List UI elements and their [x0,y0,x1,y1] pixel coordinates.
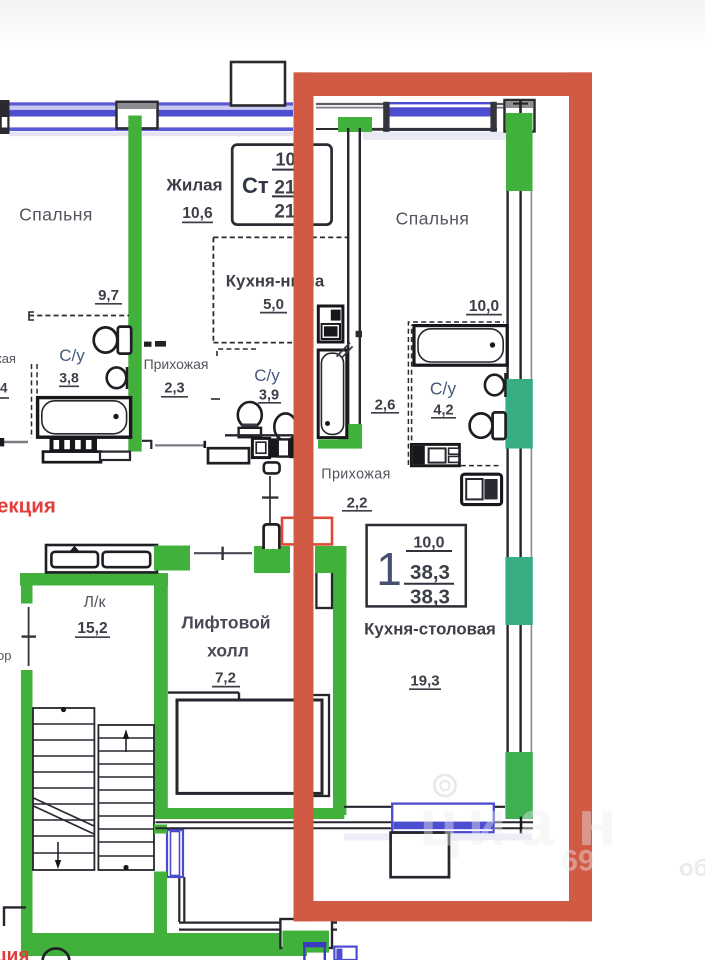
svg-text:а: а [518,787,554,859]
svg-text:21: 21 [274,202,296,223]
svg-text:10,0: 10,0 [413,535,444,552]
svg-text:ц: ц [419,787,458,859]
svg-text:2,6: 2,6 [375,397,396,414]
svg-text:7,2: 7,2 [215,670,236,687]
svg-text:3,8: 3,8 [59,370,79,386]
svg-text:и: и [467,787,506,859]
svg-text:Спальня: Спальня [19,205,93,225]
svg-text:ор: ор [0,648,11,663]
svg-text:10,6: 10,6 [182,205,213,222]
svg-text:2,3: 2,3 [164,381,184,397]
svg-text:Спальня: Спальня [396,209,470,229]
svg-text:10: 10 [275,150,295,170]
svg-text:38,3: 38,3 [410,586,450,609]
svg-text:Ст: Ст [242,173,269,198]
svg-text:1: 1 [376,543,402,595]
svg-text:19,3: 19,3 [410,673,439,690]
svg-text:3,9: 3,9 [259,388,279,404]
svg-text:5,0: 5,0 [263,296,284,313]
svg-text:10,0: 10,0 [469,298,499,315]
svg-text:Прихожая: Прихожая [144,356,209,372]
svg-text:2,2: 2,2 [347,495,368,512]
svg-text:4: 4 [0,381,8,396]
svg-text:9,7: 9,7 [98,287,119,304]
svg-text:об: об [679,855,705,882]
svg-text:4,2: 4,2 [433,403,453,419]
svg-text:С/у: С/у [430,379,457,399]
svg-text:Жилая: Жилая [166,176,223,195]
svg-text:С/у: С/у [59,346,85,365]
svg-text:холл: холл [207,641,249,661]
svg-text:38,3: 38,3 [410,561,450,584]
svg-text:Лифтовой: Лифтовой [181,613,270,633]
svg-text:Прихожая: Прихожая [321,467,390,483]
svg-text:екция: екция [0,495,56,518]
svg-text:21: 21 [274,178,296,199]
svg-text:С/у: С/у [254,366,280,385]
svg-text:жая: жая [0,351,16,366]
svg-text:ция: ция [0,946,29,960]
svg-text:Кухня-столовая: Кухня-столовая [364,620,496,639]
svg-text:Л/к: Л/к [84,594,107,611]
svg-text:69: 69 [561,845,594,878]
svg-text:15,2: 15,2 [77,620,107,637]
